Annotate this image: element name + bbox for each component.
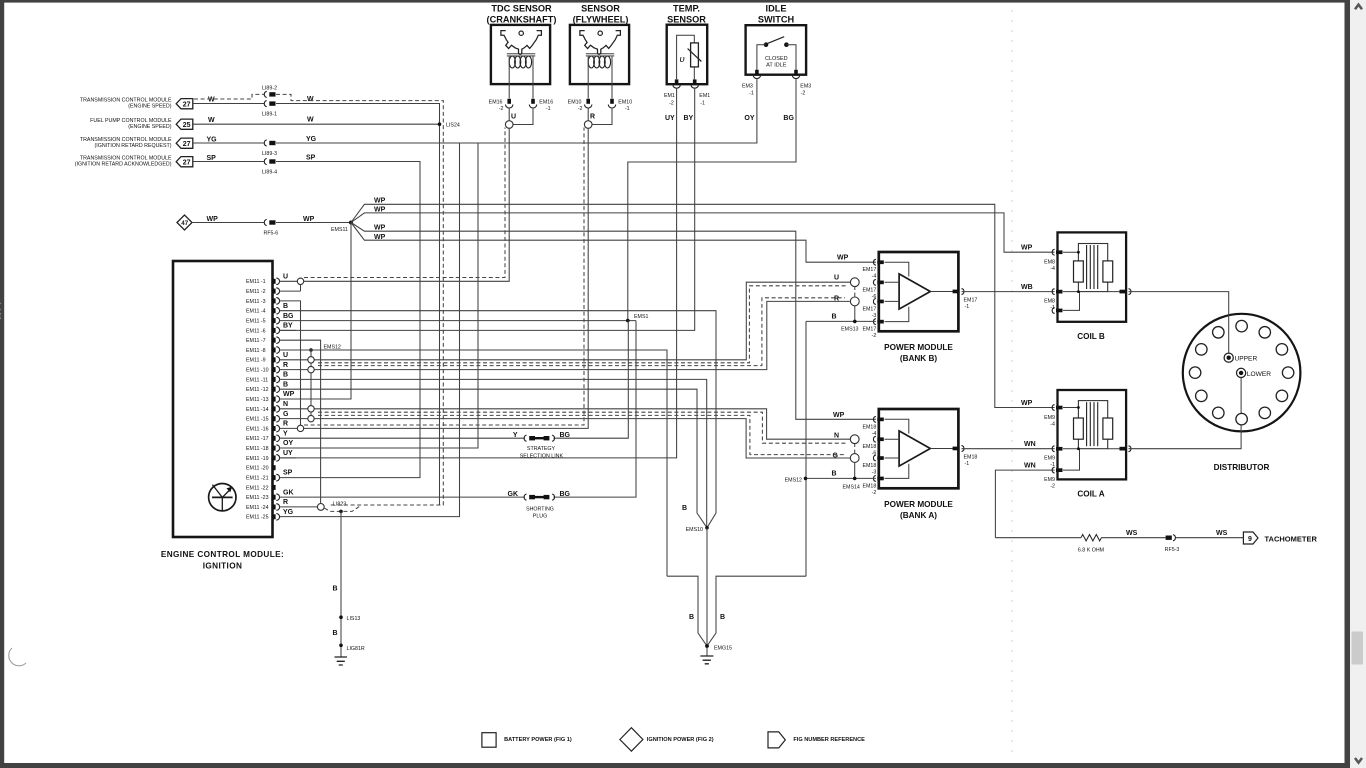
wire BY temp sensor to ECM pin 6 xyxy=(280,88,695,330)
svg-text:WN: WN xyxy=(1024,462,1036,469)
svg-text:EM11 -25: EM11 -25 xyxy=(246,515,269,521)
svg-text:N: N xyxy=(283,401,288,408)
connector RF5-6 xyxy=(264,219,279,236)
node EMS14 xyxy=(843,477,860,491)
wire B ground branch via LIS13 and LIG81R xyxy=(325,505,362,656)
coil A xyxy=(1058,390,1127,499)
svg-text:B: B xyxy=(720,614,725,621)
wire coil A output to lower contact xyxy=(1129,377,1242,449)
svg-text:LIS13: LIS13 xyxy=(347,616,361,622)
svg-text:ENGINE CONTROL MODULE:: ENGINE CONTROL MODULE: xyxy=(161,550,284,559)
connector EM16-1 xyxy=(529,99,553,112)
wire ECM row17 Y to strategy selection link xyxy=(280,321,629,439)
node EMS11 xyxy=(331,221,353,233)
svg-text:SENSOR: SENSOR xyxy=(667,15,706,25)
fig reference 27 (retard request) xyxy=(176,138,193,148)
pin EM9-4 xyxy=(1044,405,1062,428)
legend fig number reference xyxy=(768,732,865,748)
svg-text:WN: WN xyxy=(1024,441,1036,448)
svg-text:WS: WS xyxy=(1216,530,1228,537)
fuel pump control module label xyxy=(90,118,172,130)
svg-text:LOWER: LOWER xyxy=(1247,371,1271,378)
svg-text:EM11 -14: EM11 -14 xyxy=(246,407,269,413)
wire WP fan 1 EMS11 to coil A EM9-4 xyxy=(351,198,1055,408)
svg-text:SP: SP xyxy=(283,470,293,477)
wire WS tachometer feed xyxy=(995,530,1243,538)
svg-text:27: 27 xyxy=(183,159,191,166)
wire U from TDC sensor with shield circle xyxy=(505,108,533,129)
wire ECM row15 G to power module A EM18-3 xyxy=(280,411,851,458)
svg-text:SELECTION LINK: SELECTION LINK xyxy=(520,454,564,460)
svg-text:Y: Y xyxy=(513,432,518,439)
pin EM8 lower xyxy=(1052,308,1062,314)
svg-text:Y: Y xyxy=(283,430,288,437)
svg-text:B: B xyxy=(689,614,694,621)
fig reference 9 tachometer xyxy=(1243,532,1317,544)
temp. sensor xyxy=(667,4,708,85)
wire flywheel sensor pin leads xyxy=(588,84,612,99)
svg-text:G: G xyxy=(283,411,289,418)
svg-text:EM11 -18: EM11 -18 xyxy=(246,446,269,452)
node EMS12 (shield drain splice at ECM) xyxy=(309,345,341,416)
connector LI89-1 xyxy=(262,101,277,118)
svg-text:47: 47 xyxy=(181,220,188,227)
wire R from flywheel sensor with shield circle xyxy=(584,108,612,129)
svg-text:EM11 -16: EM11 -16 xyxy=(246,426,269,432)
ECM U1 engine control module: ignition xyxy=(161,261,284,571)
svg-text:R: R xyxy=(283,362,288,369)
pin EM8-4 xyxy=(1044,249,1062,272)
shield circles rows 9-10 xyxy=(308,357,314,373)
svg-text:EM11 -5: EM11 -5 xyxy=(246,319,266,325)
svg-text:EM11 -19: EM11 -19 xyxy=(246,456,269,462)
svg-text:-1: -1 xyxy=(749,91,754,97)
connector EM16-2 xyxy=(489,99,513,112)
svg-text:B: B xyxy=(283,303,288,310)
svg-text:(BANK A): (BANK A) xyxy=(900,511,937,520)
svg-text:EM9: EM9 xyxy=(1044,456,1055,462)
svg-text:SHORTING: SHORTING xyxy=(526,506,554,512)
svg-text:U: U xyxy=(283,273,288,280)
svg-text:EMS10: EMS10 xyxy=(686,527,703,533)
svg-text:(IGNITION RETARD ACKNOWLEDGED): (IGNITION RETARD ACKNOWLEDGED) xyxy=(75,162,172,168)
wire ECM row14 N to power module A EM18-6 xyxy=(280,401,851,443)
svg-text:EMS1: EMS1 xyxy=(634,314,648,320)
wire ECM row21 SP stub xyxy=(283,470,293,477)
node EMS1 xyxy=(626,314,648,323)
svg-text:EM11 -10: EM11 -10 xyxy=(246,368,269,374)
svg-text:WP: WP xyxy=(837,255,849,262)
svg-text:EM11 -8: EM11 -8 xyxy=(246,348,266,354)
svg-text:B: B xyxy=(832,471,837,478)
shield circle row 16 xyxy=(297,425,303,431)
svg-text:B: B xyxy=(283,372,288,379)
fig reference 27 (retard acknowledged) xyxy=(176,157,193,167)
connector LI89-4 xyxy=(262,158,277,175)
svg-text:EM11 -7: EM11 -7 xyxy=(246,338,266,344)
pin EM17-1 output xyxy=(953,289,978,310)
connector RF5-3 xyxy=(1165,535,1180,553)
svg-text:YG: YG xyxy=(207,136,218,143)
fig reference 25 xyxy=(176,119,193,129)
sensor (flywheel) xyxy=(570,4,629,85)
wire ECM row16 R to flywheel sensor (solid+shield) xyxy=(280,128,589,429)
svg-text:EM11 -2: EM11 -2 xyxy=(246,289,266,295)
svg-text:-1: -1 xyxy=(625,106,630,112)
svg-text:(FLYWHEEL): (FLYWHEEL) xyxy=(573,15,629,25)
svg-text:POWER MODULE: POWER MODULE xyxy=(884,500,953,509)
svg-text:EM11 -11: EM11 -11 xyxy=(246,377,268,383)
shield circles at power module A inputs xyxy=(850,435,859,479)
transmission control module (ignition retard request) label xyxy=(80,137,172,149)
svg-text:EM10: EM10 xyxy=(568,99,582,105)
ground symbol EMG15 xyxy=(700,656,713,664)
svg-text:R: R xyxy=(283,499,288,506)
svg-text:EMS14: EMS14 xyxy=(843,484,860,490)
wire labels U/R at power module B inputs xyxy=(834,275,839,303)
svg-text:EM11 -21: EM11 -21 xyxy=(246,476,269,482)
transmission control module (engine speed) label xyxy=(80,97,172,109)
pin EM17-2 xyxy=(862,319,883,339)
svg-text:EM11 -22: EM11 -22 xyxy=(246,485,269,491)
shield circle LI823 xyxy=(317,501,346,510)
wire SP retard acknowledged to ECM pin 21 xyxy=(193,154,420,477)
svg-text:EM18: EM18 xyxy=(862,463,876,469)
wire BG idle switch to splice EMS1 xyxy=(628,78,796,320)
wire WN power module A to coil A EM9-1 xyxy=(962,441,1055,449)
node EMS13 and B wire of power module B xyxy=(806,314,876,577)
svg-text:-1: -1 xyxy=(965,461,970,467)
svg-text:COIL A: COIL A xyxy=(1077,490,1104,499)
svg-text:WP: WP xyxy=(374,198,386,205)
svg-text:IGNITION: IGNITION xyxy=(203,562,243,571)
svg-text:U: U xyxy=(511,114,516,121)
svg-text:WP: WP xyxy=(303,216,315,223)
svg-text:PLUG: PLUG xyxy=(533,513,547,519)
svg-text:EMS13: EMS13 xyxy=(841,327,858,333)
svg-text:EM9: EM9 xyxy=(1044,415,1055,421)
shield circles at power module B inputs xyxy=(850,278,859,322)
svg-text:G: G xyxy=(833,452,839,459)
wire ECM row7 to shield circle LI823 xyxy=(280,340,321,504)
svg-text:BY: BY xyxy=(684,115,694,122)
connector EM3-1 xyxy=(742,70,761,97)
svg-text:EM11 -13: EM11 -13 xyxy=(246,397,269,403)
svg-text:-3: -3 xyxy=(872,470,877,476)
svg-text:(BANK B): (BANK B) xyxy=(900,354,938,363)
svg-text:EM8: EM8 xyxy=(1044,298,1055,304)
svg-text:SWITCH: SWITCH xyxy=(758,15,795,25)
svg-text:-2: -2 xyxy=(801,91,806,97)
svg-text:SP: SP xyxy=(306,154,316,161)
wire TDC sensor pin leads xyxy=(509,84,533,99)
svg-text:OY: OY xyxy=(744,115,754,122)
svg-text:(ENGINE SPEED): (ENGINE SPEED) xyxy=(128,124,172,130)
wire ECM row13 WP up to splice EMS11 xyxy=(280,223,352,400)
svg-text:W: W xyxy=(208,117,215,124)
svg-text:EM11 -9: EM11 -9 xyxy=(246,358,266,364)
svg-text:EM11 -20: EM11 -20 xyxy=(246,466,269,472)
svg-text:BG: BG xyxy=(783,115,794,122)
svg-text:TDC SENSOR: TDC SENSOR xyxy=(491,4,552,14)
wire W engine speed (solid) TCM to LIS24 and down to R row xyxy=(193,96,440,505)
pin EM18-4 xyxy=(862,416,883,436)
svg-text:LIG81R: LIG81R xyxy=(347,646,365,652)
svg-text:WP: WP xyxy=(833,412,845,419)
svg-text:-3: -3 xyxy=(872,313,877,319)
svg-text:EM17: EM17 xyxy=(964,297,978,303)
svg-text:-1: -1 xyxy=(546,106,551,112)
svg-text:EM18: EM18 xyxy=(862,483,876,489)
svg-text:-4: -4 xyxy=(1050,266,1055,272)
wire W dashed branch via LI89-2 xyxy=(194,94,443,505)
svg-text:-2: -2 xyxy=(578,106,583,112)
wire ECM row11 B to EMS10 xyxy=(280,372,707,528)
wire ECM row3 to shield circle of row16 xyxy=(280,301,301,429)
svg-text:LIS24: LIS24 xyxy=(446,123,460,129)
svg-text:LI89-2: LI89-2 xyxy=(262,86,277,92)
wire ECM row12 B to EMS10 xyxy=(280,381,708,527)
svg-text:-4: -4 xyxy=(1050,421,1055,427)
svg-text:YG: YG xyxy=(283,509,294,516)
pin EM18-3 xyxy=(862,455,883,475)
connector EM10-2 xyxy=(568,99,592,112)
wire ECM row8 B to ground run xyxy=(280,350,668,576)
wire ECM row24 R with shield circle LI823 xyxy=(280,499,318,507)
svg-text:BATTERY POWER (FIG 1): BATTERY POWER (FIG 1) xyxy=(504,737,572,743)
svg-text:B: B xyxy=(682,505,687,512)
svg-text:WP: WP xyxy=(374,225,386,232)
svg-text:BG: BG xyxy=(560,432,571,439)
connector LI89-2 xyxy=(262,86,277,98)
node EMS12 splice at power module A B wire xyxy=(785,471,876,484)
wire coil B output to upper contact xyxy=(1129,292,1229,354)
svg-text:27: 27 xyxy=(183,101,191,108)
svg-text:R: R xyxy=(283,421,288,428)
pin EM18-2 xyxy=(862,476,883,496)
ground symbol LIG81R xyxy=(335,657,348,665)
svg-text:B: B xyxy=(283,381,288,388)
pin EM9-1 xyxy=(1044,446,1062,468)
wire WP from fig 47 to splice EMS11 xyxy=(192,216,351,223)
svg-text:EM16: EM16 xyxy=(489,99,503,105)
shorting plug connector xyxy=(508,491,571,519)
svg-text:(ENGINE SPEED): (ENGINE SPEED) xyxy=(128,104,172,110)
svg-text:EMS11: EMS11 xyxy=(331,227,348,233)
idle switch xyxy=(746,4,807,75)
wire ECM row18 OY stub xyxy=(280,440,297,448)
svg-text:UPPER: UPPER xyxy=(1235,356,1258,363)
svg-text:EMG15: EMG15 xyxy=(714,646,732,652)
svg-text:EM18: EM18 xyxy=(862,424,876,430)
strategy selection link connector xyxy=(513,432,571,460)
svg-text:U: U xyxy=(834,275,839,282)
svg-text:U: U xyxy=(283,352,288,359)
distributor xyxy=(1183,314,1301,472)
wire ECM row5 BG to splice EMS1 xyxy=(280,313,637,321)
svg-text:WP: WP xyxy=(1021,245,1033,252)
wire ECM row25 YG label xyxy=(283,509,294,516)
svg-text:EM17: EM17 xyxy=(862,327,876,333)
power module U2 (bank B) xyxy=(879,252,959,363)
svg-text:GK: GK xyxy=(283,489,294,496)
wire ECM row19 UY stub xyxy=(280,450,297,458)
lower contact xyxy=(1237,368,1272,378)
shield circles rows 14-15 xyxy=(308,406,314,422)
svg-text:GK: GK xyxy=(508,491,519,498)
svg-text:UY: UY xyxy=(283,450,293,457)
svg-text:OY: OY xyxy=(283,440,293,447)
transmission control module (ignition retard acknowledged) label xyxy=(75,155,172,167)
svg-text:-2: -2 xyxy=(872,333,877,339)
svg-text:LI89-1: LI89-1 xyxy=(262,112,277,118)
wire WP fan 4 EMS11 to power module B EM17-4 xyxy=(351,223,876,263)
svg-text:B: B xyxy=(332,630,337,637)
svg-text:UY: UY xyxy=(665,115,675,122)
svg-text:R: R xyxy=(590,114,595,121)
svg-text:STRATEGY: STRATEGY xyxy=(527,446,556,452)
svg-text:EM11 -1: EM11 -1 xyxy=(246,279,266,285)
svg-text:EM11 -15: EM11 -15 xyxy=(246,417,269,423)
svg-text:SP: SP xyxy=(207,155,217,162)
svg-text:-1: -1 xyxy=(700,100,705,106)
svg-text:EM11 -24: EM11 -24 xyxy=(246,505,269,511)
ECM pin connectors EM11-1..25 xyxy=(246,278,280,285)
node LIG81R xyxy=(339,644,365,652)
svg-text:EM17: EM17 xyxy=(862,267,876,273)
svg-text:EM17: EM17 xyxy=(862,306,876,312)
connector EM10-1 xyxy=(608,99,632,112)
svg-text:BG: BG xyxy=(283,313,294,320)
wire labels N/G at power module A inputs xyxy=(833,432,840,459)
wire ECM row6 BY stub xyxy=(280,323,297,331)
svg-text:B: B xyxy=(332,586,337,593)
svg-text:BY: BY xyxy=(283,323,293,330)
fig reference 47 (diamond) xyxy=(177,215,192,230)
svg-text:TEMP.: TEMP. xyxy=(673,4,700,14)
DIAGRAM xyxy=(1011,10,1013,755)
svg-text:WP: WP xyxy=(1021,400,1033,407)
svg-text:6.8 K OHM: 6.8 K OHM xyxy=(1078,548,1104,554)
svg-text:DISTRIBUTOR: DISTRIBUTOR xyxy=(1214,463,1270,472)
svg-text:WS: WS xyxy=(1126,530,1138,537)
svg-text:IGNITION POWER (FIG 2): IGNITION POWER (FIG 2) xyxy=(647,737,714,743)
splice EMS10 ground merge xyxy=(682,505,709,656)
svg-text:WB: WB xyxy=(1021,284,1033,291)
wire WN coil A EM9-2 to tachometer feed xyxy=(995,462,1054,537)
svg-text:-4: -4 xyxy=(872,274,877,280)
svg-text:EM11 -4: EM11 -4 xyxy=(246,309,266,315)
svg-text:-2: -2 xyxy=(1050,483,1055,489)
wire WP fan 3 EMS11 to power module A EM18-4 xyxy=(351,223,876,420)
svg-text:TRANSMISSION CONTROL MODULE: TRANSMISSION CONTROL MODULE xyxy=(80,97,172,103)
wire ECM row9 U to power module B EM17-6 xyxy=(280,282,851,363)
svg-text:-2: -2 xyxy=(669,100,674,106)
svg-text:LI89-4: LI89-4 xyxy=(262,170,277,176)
distributor cap towers (12 circles) xyxy=(1189,320,1294,425)
svg-text:CLOSED: CLOSED xyxy=(765,56,788,62)
svg-text:R: R xyxy=(834,295,839,302)
wire ground bus to EMG15 xyxy=(667,576,806,646)
node LIS13 xyxy=(339,615,360,622)
svg-text:LI89-3: LI89-3 xyxy=(262,151,277,157)
svg-text:EM18: EM18 xyxy=(862,444,876,450)
coil A output to distributor lower xyxy=(1120,446,1131,452)
svg-text:EM10: EM10 xyxy=(618,99,632,105)
wire ECM row4 B to ground funnel EMS10 xyxy=(280,303,717,528)
TDC sensor (crankshaft) xyxy=(487,4,557,85)
pin EM18-6 xyxy=(862,436,883,456)
coil B output to distributor upper xyxy=(1120,289,1131,295)
svg-text:COIL B: COIL B xyxy=(1077,332,1105,341)
svg-text:(IGNITION RETARD REQUEST): (IGNITION RETARD REQUEST) xyxy=(94,143,171,149)
svg-text:27: 27 xyxy=(183,141,191,148)
svg-text:9: 9 xyxy=(1248,536,1252,543)
svg-text:υ: υ xyxy=(680,54,685,65)
svg-text:LI823: LI823 xyxy=(333,501,346,507)
svg-text:BG: BG xyxy=(560,491,571,498)
pin EM18-1 output xyxy=(953,446,978,467)
wire ECM row10 R to power module B EM17-3 xyxy=(280,298,851,370)
wire WP fan 2 EMS11 to coil B EM8-4 xyxy=(351,207,1055,253)
svg-text:W: W xyxy=(307,117,314,124)
connector EM1-2 xyxy=(664,79,680,106)
upper contact xyxy=(1224,353,1257,363)
resistor 6.8 K OHM xyxy=(1078,535,1104,554)
wire UY temp sensor to ECM pin 19 xyxy=(280,88,677,458)
svg-text:TRANSMISSION CONTROL MODULE: TRANSMISSION CONTROL MODULE xyxy=(80,155,172,161)
svg-text:EM1: EM1 xyxy=(664,93,675,99)
svg-text:IDLE: IDLE xyxy=(766,4,787,14)
wire ECM row23 GK to shorting plug xyxy=(280,321,637,498)
svg-text:WP: WP xyxy=(283,391,295,398)
svg-text:EM11 -17: EM11 -17 xyxy=(246,436,269,442)
pin EM8-1 xyxy=(1044,289,1062,311)
node EMG15 xyxy=(705,644,732,651)
connector EM3-2 xyxy=(792,70,811,97)
svg-text:RF5-3: RF5-3 xyxy=(1165,547,1180,553)
wire WB power module B to coil B xyxy=(962,284,1055,292)
wire ECM row1 U to TDC sensor (solid+shield) xyxy=(280,128,510,282)
wire W engine speed FPCM label xyxy=(208,117,314,125)
wire OY idle switch to ECM pin 18 xyxy=(280,78,757,448)
svg-text:EM11 -23: EM11 -23 xyxy=(246,495,269,501)
svg-text:EM11 -3: EM11 -3 xyxy=(246,299,266,305)
svg-text:SENSOR: SENSOR xyxy=(581,4,620,14)
svg-text:-2: -2 xyxy=(499,106,504,112)
pin EM17-6 xyxy=(862,279,883,299)
pin EM9-2 xyxy=(1044,467,1062,489)
svg-text:-2: -2 xyxy=(872,490,877,496)
svg-text:FIG NUMBER REFERENCE: FIG NUMBER REFERENCE xyxy=(793,737,865,743)
svg-text:B: B xyxy=(832,314,837,321)
svg-text:EM11 -12: EM11 -12 xyxy=(246,387,269,393)
connector EM1-1 xyxy=(691,79,710,106)
svg-text:W: W xyxy=(208,97,215,104)
svg-text:EM18: EM18 xyxy=(964,454,978,460)
svg-text:EM16: EM16 xyxy=(539,99,553,105)
svg-text:(CRANKSHAFT): (CRANKSHAFT) xyxy=(487,15,557,25)
svg-text:EM11 -6: EM11 -6 xyxy=(246,328,266,334)
svg-text:EMS12: EMS12 xyxy=(785,478,802,484)
shield circle on row 1 xyxy=(297,278,303,291)
svg-text:EM17: EM17 xyxy=(862,287,876,293)
svg-text:TRANSMISSION CONTROL MODULE: TRANSMISSION CONTROL MODULE xyxy=(80,137,172,143)
svg-text:WP: WP xyxy=(207,216,219,223)
svg-text:N: N xyxy=(834,432,839,439)
pin EM11-25 xyxy=(209,484,236,511)
svg-text:-1: -1 xyxy=(965,304,970,310)
